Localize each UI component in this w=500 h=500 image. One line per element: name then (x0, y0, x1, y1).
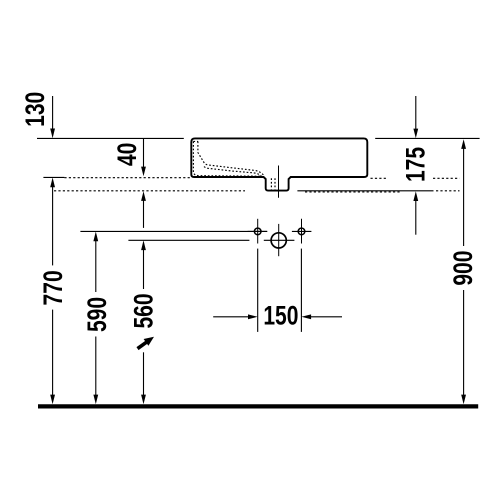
wire: drain-bottom level line right (solid) (297, 190, 433, 192)
dimension 175 (415, 96, 417, 235)
supply hole right vertical centerline (301, 219, 303, 244)
wire: 560 level line (128, 239, 249, 241)
supply hole right (small circle) (298, 228, 305, 235)
supply hole left horizontal tick (248, 230, 268, 232)
inner rim top connector (193, 140, 198, 142)
inner bowl wall and floor top (198, 141, 264, 175)
wire: 770 level dotted line far right (433, 177, 460, 179)
floor line (38, 404, 478, 408)
svg-text:770: 770 (39, 270, 69, 305)
wire: 560 level tick through waste hole (264, 239, 295, 241)
svg-text:175: 175 (401, 147, 431, 182)
wire: 770 level dotted line right of basin (371, 177, 389, 179)
dimension 130 (52, 96, 54, 129)
waste hole (large circle) (271, 233, 286, 248)
dimension 560 (143, 250, 145, 396)
waste direction bold arrow (138, 337, 155, 349)
dimension 770 (52, 187, 54, 396)
svg-text:560: 560 (129, 293, 159, 328)
drain pipe hidden lines (270, 178, 272, 189)
wire: drain-bottom level dotted line far right (436, 190, 460, 192)
svg-text:590: 590 (83, 297, 113, 332)
washbasin outline (side view) (191, 138, 367, 190)
dimension 590 (95, 241, 97, 396)
supply hole left vertical centerline (257, 219, 259, 244)
wire: 770 level hidden dotted line to basin (64, 177, 190, 179)
dimension 150 extension lines (258, 249, 302, 332)
dimension 40 (outside arrows) (143, 139, 145, 228)
svg-text:40: 40 (112, 143, 142, 166)
basin hidden interior contour (dotted) (193, 141, 275, 189)
wire: top reference line L1 right segment (900 level) (375, 137, 479, 139)
wire: top reference line L1 left segment (900 level) (37, 137, 184, 139)
wire: 590 level tick through right hole (292, 230, 312, 232)
svg-text:130: 130 (20, 92, 50, 127)
wire: 770 level extension line left (solid) (43, 176, 64, 178)
bowl floor underside (204, 167, 262, 177)
svg-text:900: 900 (449, 251, 479, 286)
dimension 150 arrows (213, 316, 342, 318)
dimension 900 (463, 149, 465, 396)
drain centerline (278, 166, 280, 198)
supply hole left (small circle) (254, 228, 261, 235)
wire: 590 level line (80, 230, 267, 232)
outer hidden wall line (193, 141, 262, 176)
waste hole vertical centerline (278, 224, 280, 256)
wire: drain-bottom level dotted underline right (305, 191, 401, 193)
wire: drain-bottom level dotted line left (54, 190, 245, 192)
svg-text:150: 150 (263, 301, 298, 331)
